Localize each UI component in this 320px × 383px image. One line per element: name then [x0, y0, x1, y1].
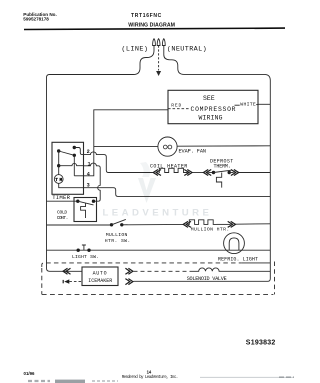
svg-text:2: 2: [87, 149, 90, 155]
svg-text:CONT.: CONT.: [57, 215, 69, 221]
svg-text:TIMER: TIMER: [52, 194, 70, 201]
svg-text:LIGHT SW.: LIGHT SW.: [72, 254, 99, 260]
svg-text:TM: TM: [55, 178, 62, 183]
svg-text:LEADVENTURE: LEADVENTURE: [103, 207, 213, 218]
svg-text:RED: RED: [171, 103, 181, 109]
svg-text:THERM.: THERM.: [214, 164, 231, 170]
svg-text:HTR. SW.: HTR. SW.: [105, 238, 131, 244]
svg-text:S193832: S193832: [246, 339, 276, 346]
svg-text:4: 4: [87, 171, 90, 177]
svg-text:WHITE: WHITE: [240, 101, 256, 107]
svg-text:01/96: 01/96: [24, 371, 36, 376]
svg-text:COLD: COLD: [57, 210, 67, 216]
svg-text:REFRIG. LIGHT: REFRIG. LIGHT: [218, 257, 258, 263]
svg-text:SOLENOID VALVE: SOLENOID VALVE: [187, 276, 227, 282]
svg-text:EVAP. FAN: EVAP. FAN: [179, 148, 207, 154]
svg-text:COMPRESSOR: COMPRESSOR: [191, 106, 236, 113]
svg-text:Rendered by LeadVenture, Inc.: Rendered by LeadVenture, Inc.: [122, 375, 179, 380]
svg-text:AUTO: AUTO: [93, 271, 107, 277]
svg-text:14: 14: [147, 370, 152, 375]
svg-text:TRT16FNC: TRT16FNC: [131, 13, 162, 19]
svg-text:SEE: SEE: [203, 95, 215, 102]
svg-text:WIRING: WIRING: [199, 114, 223, 121]
svg-text:1: 1: [88, 161, 91, 167]
svg-text:COIL HEATER: COIL HEATER: [150, 164, 187, 170]
svg-text:(NEUTRAL): (NEUTRAL): [167, 46, 207, 54]
svg-text:MULLION: MULLION: [106, 232, 128, 238]
svg-text:ICEMAKER: ICEMAKER: [88, 278, 112, 284]
svg-text:5995278178: 5995278178: [23, 16, 49, 21]
svg-text:WIRING DIAGRAM: WIRING DIAGRAM: [128, 22, 175, 28]
svg-text:MULLION HTR.: MULLION HTR.: [191, 227, 230, 233]
svg-text:(LINE): (LINE): [121, 46, 148, 54]
